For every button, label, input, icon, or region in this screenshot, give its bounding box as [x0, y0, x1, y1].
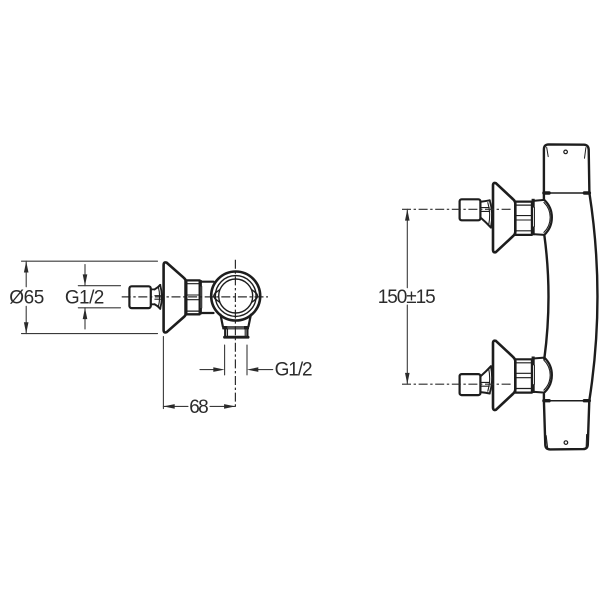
outlet flange (left view): [223, 326, 249, 328]
bottom inlet wall block (right view): [460, 374, 481, 395]
dimension Ø65 extension lines: [22, 261, 158, 333]
knob right grip notch: [252, 290, 258, 303]
top joint line: [544, 192, 590, 194]
bottom connection nut (right view): [515, 359, 532, 392]
bar bottom cap: [544, 401, 589, 450]
bottom escutcheon (right view): [493, 341, 515, 410]
top inlet wall block (right view): [460, 199, 481, 220]
knob face circle: [219, 279, 253, 313]
svg-text:G1/2: G1/2: [65, 287, 105, 308]
horizontal centerline through inlet union: [122, 296, 268, 298]
escutcheon cone (left view): [164, 262, 187, 332]
bottom nut/boss band: [532, 357, 535, 366]
top cap chamfer lines: [547, 147, 586, 158]
top cap screw hole: [564, 150, 568, 154]
bottom cap chamfer lines: [546, 435, 586, 449]
bar body left edge upper: [543, 193, 545, 200]
bottom cap screw hole: [564, 441, 568, 445]
arrow up to G1/2 bottom: [84, 308, 86, 329]
bottom boss on bar: [535, 357, 545, 360]
dimension 68 line: [163, 405, 235, 407]
svg-text:150±15: 150±15: [378, 287, 436, 308]
bar body left edge lower: [543, 394, 545, 400]
arrow down Ø65: [24, 322, 29, 333]
top boss on bar: [535, 199, 545, 202]
outlet spigot G1/2 (left view): [225, 329, 247, 337]
outlet shoulders (left view): [221, 315, 223, 327]
thread lines inside bell: [155, 296, 161, 300]
dimension G1/2 outlet extension lines: [225, 345, 247, 375]
bottom joint line: [544, 400, 589, 402]
dimension 68 extension line: [162, 337, 164, 409]
dimension 150±15 line: [406, 209, 408, 384]
G1/2 outlet leader right: [258, 369, 273, 371]
top nut/boss band: [532, 199, 535, 208]
knob outer circle (left view): [211, 272, 260, 321]
svg-text:G1/2: G1/2: [275, 360, 313, 381]
dimension Ø65 line: [25, 261, 27, 333]
dimension G1/2 inlet extension lines: [78, 286, 120, 308]
G1/2 outlet leader left: [200, 369, 214, 371]
collar between nut and knob body (left view): [202, 282, 214, 313]
nut/body junction band (left view): [199, 280, 202, 286]
dimension 150±15 extension line top (dash-dot centerline): [402, 208, 513, 210]
hex nut (left view): [185, 280, 199, 314]
wall union block (left view): [129, 286, 150, 308]
bar body right edge: [589, 193, 597, 401]
union bell / tail piece (left view): [155, 285, 161, 290]
bar top cap: [544, 144, 590, 193]
arrow up Ø65: [24, 261, 29, 272]
top connection nut (right view): [515, 202, 532, 235]
svg-text:68: 68: [189, 397, 209, 418]
bottom inlet eccentric bell: [481, 366, 491, 376]
top inlet eccentric bell: [481, 200, 490, 201]
arrow down to G1/2 top: [84, 265, 86, 286]
top escutcheon (right view): [493, 183, 515, 252]
bar body left edge middle: [544, 235, 548, 359]
svg-text:Ø65: Ø65: [9, 287, 44, 308]
knob left grip notch: [214, 290, 220, 303]
knob ring circle: [215, 276, 256, 317]
union neck (left view): [152, 289, 155, 304]
dimension 150±15 extension line bottom (dash-dot centerline): [402, 383, 513, 385]
vertical centerline through knob and outlet: [234, 260, 236, 408]
